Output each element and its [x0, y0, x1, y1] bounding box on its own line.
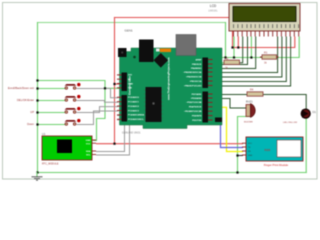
node btn4 [36, 123, 38, 125]
svg-text:AREF: AREF [196, 58, 203, 61]
dip chip [144, 87, 222, 122]
resistor R2 [224, 56, 240, 69]
svg-text:Finger Print Module: Finger Print Module [264, 163, 289, 167]
wire 5V top rail [115, 17, 233, 19]
wire LED cathode to GND [305, 119, 307, 172]
svg-text:PC0/ADC0: PC0/ADC0 [128, 96, 140, 99]
svg-text:PC2/ADC2: PC2/ADC2 [128, 105, 140, 108]
lcd pin stubs [234, 31, 299, 37]
node GND pin branch [104, 87, 106, 89]
svg-text:PC1/ADC1: PC1/ADC1 [128, 101, 140, 104]
push button SW3 [65, 107, 81, 113]
svg-text:R305: R305 [265, 149, 271, 152]
wire GND branch down to RTC GND [94, 88, 106, 140]
wire gray button4 to A3 [77, 111, 118, 125]
svg-text:BUZZER: BUZZER [244, 122, 253, 124]
svg-text:PC3/ADC3: PC3/ADC3 [128, 109, 140, 112]
wire RTC GND stub link [238, 155, 243, 157]
LCD LCD1 LM016L [208, 4, 300, 37]
wire LCD D6 to arduino [213, 37, 286, 82]
svg-text:SDA: SDA [86, 150, 91, 153]
svg-text:www.TheEngineeringProjects.com: www.TheEngineeringProjects.com [166, 57, 170, 100]
wire LCD RW drop [250, 37, 252, 58]
svg-text:LED-YELLOW: LED-YELLOW [283, 122, 298, 124]
svg-text:LM016L: LM016L [208, 9, 218, 13]
svg-text:~PB0/ICP1/CLKO: ~PB0/ICP1/CLKO [184, 85, 202, 87]
left pin header upper [117, 73, 133, 92]
lcd pin label marks [233, 24, 299, 28]
right pin header lower [184, 92, 213, 123]
svg-text:~PB3/MOSI/OC2A: ~PB3/MOSI/OC2A [183, 71, 202, 74]
wire LCD VDD drop [237, 37, 239, 48]
wire 5V branch to arduino 5V pin [115, 83, 120, 85]
wire R1 to K pin [277, 37, 299, 58]
node 5V pin branch [113, 83, 115, 85]
svg-text:~PB2/SS/OC1B: ~PB2/SS/OC1B [186, 76, 202, 78]
wire GND left vertical [37, 23, 39, 173]
mounting hole [133, 56, 136, 59]
usb connector [176, 35, 196, 56]
svg-text:~PD3/INT1/OC2B: ~PD3/INT1/OC2B [184, 111, 202, 113]
orange rect 1 [156, 49, 160, 52]
svg-text:PD4/T0/XCK: PD4/T0/XCK [189, 106, 202, 109]
reset button [118, 48, 127, 57]
svg-text:~PD6/AIN0: ~PD6/AIN0 [190, 97, 202, 100]
wire gray button2 to A1 [77, 101, 118, 103]
wire gray button1 to A0 [77, 89, 118, 98]
wire arduino to R4 [213, 94, 248, 96]
svg-text:DEL/OK/Enter: DEL/OK/Enter [17, 98, 34, 102]
wire arduino to buzzer positive [213, 99, 248, 109]
svg-text:U1: U1 [42, 132, 46, 136]
svg-text:PC4/ADC4/SDA: PC4/ADC4/SDA [128, 114, 144, 117]
svg-text:RTC_MODULE: RTC_MODULE [42, 163, 59, 166]
wire 5V left vertical [114, 18, 116, 144]
svg-text:PC5/ADC5/SCL: PC5/ADC5/SCL [128, 118, 144, 121]
wire GND top rail [38, 22, 226, 24]
node RW tee [250, 56, 252, 58]
node VSS tee [233, 56, 235, 58]
LED D1 [283, 109, 316, 124]
wire button3 feed [38, 112, 65, 114]
node 5V modules row [113, 143, 115, 145]
buzzer BUZ1 [244, 99, 255, 123]
node GND bottom [36, 171, 38, 173]
svg-text:~PD5/T1/OC0B: ~PD5/T1/OC0B [186, 102, 202, 104]
svg-text:UP: UP [30, 110, 34, 114]
svg-text:GND: GND [248, 155, 253, 157]
node btn2 [36, 99, 38, 101]
svg-text:PD1/TXD: PD1/TXD [192, 120, 202, 122]
ground [36, 172, 38, 177]
push button SW4 [65, 119, 81, 125]
wire button2 feed [38, 100, 65, 102]
node GND btn branch [36, 79, 38, 81]
wire R4 to LED anode [264, 95, 307, 110]
wire gray RTC SCL to A5 [97, 120, 130, 155]
node btn3 [36, 111, 38, 113]
svg-text:LCD: LCD [210, 4, 217, 8]
node fingerprint GND tee [236, 154, 238, 156]
fingerprint module R305 [242, 137, 303, 167]
svg-text:Enroll/Back/Down exit: Enroll/Back/Down exit [8, 86, 34, 90]
wire GND bottom rail [38, 172, 307, 174]
wire 5V modules row [97, 143, 243, 145]
svg-text:SCL: SCL [86, 154, 91, 156]
left pin header lower [117, 95, 144, 122]
node VDD tee [237, 46, 239, 48]
wire R2 left to GND row [221, 58, 225, 63]
wire GND LCD row (VSS RW R1) [221, 57, 263, 59]
svg-text:GND: GND [86, 140, 91, 142]
svg-text:VCC: VCC [86, 143, 91, 145]
wire LCD RS to arduino [213, 37, 248, 65]
node 5V LCD corner [231, 46, 233, 48]
resistor R1 [260, 51, 279, 65]
wire gray button3 to A2 [77, 107, 118, 113]
wire LCD VEE drop to R2 [240, 37, 243, 63]
svg-text:PD7/AIN1: PD7/AIN1 [192, 93, 203, 96]
wire buzzer negative to GND [238, 117, 250, 173]
push button SW2 [65, 95, 81, 101]
wire LCD VSS drop [233, 37, 235, 58]
push button SW1 [65, 83, 81, 89]
wire GND right vertical to LCD [225, 23, 227, 58]
svg-text:BUZ1: BUZ1 [246, 99, 253, 103]
wire gray RTC SDA to A4 [97, 115, 125, 151]
wire 5V right vertical to LCD [232, 18, 234, 48]
wire LCD E to arduino [213, 37, 256, 69]
svg-text:R4: R4 [250, 88, 254, 92]
wire LCD D7 to arduino [213, 37, 291, 86]
svg-text:Down: Down [27, 122, 34, 126]
resistor R4 [247, 88, 263, 97]
wire blue arduino RX to fingerprint TX [213, 112, 243, 148]
svg-text:~PB1/OC1A: ~PB1/OC1A [189, 80, 202, 83]
atmega qfp chip [154, 53, 169, 68]
node GND LCD corner [224, 56, 226, 58]
wire 5V LCD row to backlight A [233, 37, 295, 48]
button labels [8, 86, 35, 126]
RTC module U1 [42, 132, 96, 166]
svg-text:D1: D1 [313, 110, 317, 114]
svg-text:PD2/INT0: PD2/INT0 [192, 115, 202, 117]
wire button4 feed [38, 124, 65, 126]
svg-text:PB5/SCK: PB5/SCK [192, 64, 202, 66]
svg-text:VIN: VIN [128, 88, 132, 90]
wire GND branch to arduino GND pin [38, 81, 120, 89]
right pin header upper [183, 58, 212, 89]
sheet border [3, 3, 318, 180]
power jack [139, 40, 154, 63]
wire LCD D4 to arduino [213, 37, 278, 73]
node btn1 [36, 87, 38, 89]
wire LCD D5 to arduino [213, 37, 282, 77]
wire button1 feed [38, 88, 65, 90]
svg-text:VCC: VCC [248, 143, 253, 145]
svg-text:GENUINO UNO1: GENUINO UNO1 [122, 132, 141, 135]
svg-text:PB4/MISO: PB4/MISO [191, 67, 202, 70]
wire yellow arduino TX to fingerprint RX [213, 107, 243, 151]
svg-text:GEN1: GEN1 [125, 29, 134, 33]
svg-text:GND: GND [128, 83, 133, 85]
svg-text:R1: R1 [264, 51, 268, 55]
node LED GND tee [236, 171, 238, 173]
arduino board U2 GEN1 [120, 29, 223, 135]
